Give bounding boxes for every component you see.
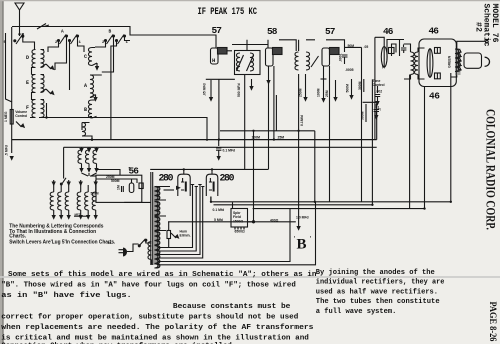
osc switch S3 — [105, 40, 107, 42]
hum eliminator resistor — [167, 231, 171, 239]
wire 46 output drops — [424, 87, 426, 209]
svg-text:25M: 25M — [325, 90, 329, 97]
arrow .05 under 57 — [210, 80, 212, 97]
svg-text:.5 MFd: .5 MFd — [5, 145, 9, 156]
bank B cluster 2 — [81, 180, 96, 192]
svg-text:Charts.: Charts. — [9, 234, 26, 240]
tube 57 first grid cap — [211, 48, 219, 64]
scan streak across page — [0, 276, 500, 278]
wire coil F interconnect — [30, 100, 47, 118]
svg-text:500M: 500M — [91, 192, 99, 196]
wire S1 to coils — [19, 34, 21, 36]
tube 56 box — [96, 175, 142, 202]
wire IF1 top — [232, 40, 268, 51]
wire left frame vertical A — [6, 33, 13, 102]
svg-text:E: E — [26, 80, 29, 86]
tap arrow coil A — [95, 95, 97, 100]
osc padder inductor — [82, 123, 90, 131]
tube 56 plate box — [139, 183, 143, 189]
rectifier tube 1 envelope — [178, 174, 190, 196]
svg-text:individual rectifiers, they ar: individual rectifiers, they are — [316, 279, 445, 287]
wire osc to bus — [39, 116, 92, 118]
power supply box top — [150, 169, 268, 174]
detector coil bank A — [78, 150, 82, 164]
resistor 300M driver — [363, 79, 365, 92]
svg-text:The two tubes then constitute: The two tubes then constitute — [316, 298, 440, 306]
tube 46 output envelope — [419, 39, 456, 87]
IF transformer 2 secondary — [306, 52, 310, 70]
svg-text:C: C — [84, 54, 87, 60]
svg-text:': ' — [293, 236, 296, 242]
right margin vertical MODEL 76 Schematic #2 — [473, 4, 498, 47]
osc coil C — [88, 48, 92, 66]
cap 0.1MFd to bus — [216, 140, 221, 156]
wire under 58 to supply box — [268, 66, 270, 169]
svg-text:46: 46 — [429, 91, 440, 102]
svg-text:400Ω: 400Ω — [270, 219, 279, 223]
svg-text:Some sets of this model are wi: Some sets of this model are wired as in … — [8, 271, 317, 279]
B+ rail 3 — [253, 208, 425, 210]
AC plug — [119, 250, 124, 253]
svg-text:as in "B" have five lugs.: as in "B" have five lugs. — [1, 292, 132, 300]
power transformer windings — [154, 187, 159, 265]
svg-text:100M: 100M — [317, 88, 321, 97]
tone control cap .002 — [375, 86, 380, 101]
svg-text:1M: 1M — [117, 185, 121, 190]
switch S1 — [14, 40, 16, 42]
svg-text:.05 MFd: .05 MFd — [203, 83, 207, 96]
mid bus — [220, 130, 315, 132]
svg-text:57: 57 — [212, 25, 223, 36]
svg-text:"B". Those wired as in "A" ha: "B". Those wired as in "A" have four lug… — [1, 282, 296, 290]
output transformer — [455, 49, 460, 76]
long bus line 2 — [64, 146, 377, 148]
tiny component labels — [4, 44, 452, 245]
svg-text:100M: 100M — [252, 135, 261, 139]
ground arrow left bottom — [10, 156, 14, 161]
wire coil D interconnect — [32, 50, 47, 75]
svg-text:46: 46 — [429, 26, 440, 37]
tube 58 grid cap — [266, 48, 274, 66]
svg-text:correct for proper operation,: correct for proper operation, substitute… — [1, 313, 298, 321]
tube 46 output cathode — [427, 49, 433, 78]
svg-text:58: 58 — [267, 26, 278, 37]
wire verticals midsection — [218, 79, 220, 139]
speaker voice coil box — [464, 53, 482, 68]
speaker terminal dot — [486, 40, 489, 43]
wire left frame vertical B — [11, 27, 13, 153]
tube 46 output grid elements — [435, 48, 441, 54]
heater nest lines — [158, 185, 193, 248]
svg-text:used as half wave rectifiers.: used as half wave rectifiers. — [316, 288, 438, 296]
svg-text:B: B — [297, 237, 307, 253]
svg-text:is critical and must be mainta: is critical and must be maintained as sh… — [1, 334, 309, 342]
cap det ground — [335, 80, 337, 97]
riser top ticks — [191, 185, 205, 187]
svg-text:B: B — [109, 29, 112, 35]
svg-text:when replacements are needed.: when replacements are needed. The polari… — [1, 324, 314, 332]
svg-text:250M: 250M — [299, 88, 303, 97]
AF transformer wiring — [404, 44, 425, 79]
cap .1 — [374, 104, 379, 115]
svg-text:.0001: .0001 — [339, 53, 343, 62]
arrow under IF1 — [251, 79, 253, 86]
switch in antenna bus — [37, 24, 46, 30]
speaker cone — [485, 57, 490, 66]
svg-text:500M: 500M — [346, 84, 350, 93]
svg-text:a full wave system.: a full wave system. — [316, 308, 397, 316]
svg-text:H: H — [212, 57, 215, 64]
tap arrow coil C — [96, 63, 98, 68]
wire 58 to IF2 — [279, 40, 296, 51]
speaker field box — [231, 209, 248, 228]
bank B switch — [60, 183, 62, 185]
svg-text:': ' — [309, 236, 312, 242]
svg-text:Switch Levers Are'Lug 5'In Con: Switch Levers Are'Lug 5'In Connection Ch… — [9, 240, 116, 246]
wire under first 57 — [206, 78, 235, 80]
filament feed arrow — [164, 189, 175, 191]
long bus line 1 — [12, 139, 377, 141]
svg-text:5: 5 — [129, 166, 131, 170]
note text left — [9, 224, 116, 246]
B+ rail 1 — [211, 197, 451, 202]
svg-text:500M: 500M — [360, 111, 364, 120]
capacitor .0001 — [342, 55, 348, 64]
tap arrow coil E — [46, 89, 51, 94]
bottom paragraph 1 — [1, 269, 445, 344]
cap at rails — [210, 197, 212, 202]
svg-text:1500Ω: 1500Ω — [233, 220, 244, 224]
page left edge strip — [0, 0, 2, 344]
svg-text:#2: #2 — [473, 22, 482, 32]
fuse winding — [148, 242, 152, 260]
resistor 500M det — [305, 74, 307, 97]
tube 46 driver cathode — [381, 47, 387, 68]
svg-text:0.1Mfd: 0.1Mfd — [300, 115, 304, 126]
svg-text:By joining the anodes of the: By joining the anodes of the — [316, 269, 435, 277]
IF transformer 2 primary — [295, 52, 299, 70]
tube 46 driver plate bracket — [387, 40, 400, 61]
svg-text:5 Mfd: 5 Mfd — [214, 218, 223, 222]
svg-text:500 MFd: 500 MFd — [237, 83, 241, 97]
svg-text:0.1 MFd: 0.1 MFd — [223, 149, 236, 153]
svg-text:Elimin.: Elimin. — [180, 233, 191, 237]
transformer tap wires — [155, 187, 171, 231]
svg-text:1 MEG: 1 MEG — [4, 111, 8, 122]
antenna — [15, 3, 24, 10]
svg-text:PAGE 8-26: PAGE 8-26 — [488, 302, 498, 342]
svg-text:MFD: MFD — [75, 213, 82, 217]
svg-text:50M: 50M — [348, 44, 355, 48]
B+ rail 2 — [214, 79, 373, 204]
wire top bus left — [12, 27, 216, 48]
svg-text:Control: Control — [15, 114, 27, 118]
svg-text:B: B — [22, 32, 25, 38]
wire 46 driver area verticals — [361, 47, 363, 201]
resistor 500M driver — [351, 79, 353, 95]
switch S2 — [58, 40, 60, 42]
cap .05 interstage — [401, 45, 406, 54]
svg-text:B: B — [84, 107, 87, 113]
IF1 primary coil — [236, 53, 240, 71]
IF2 trimmer arrow — [311, 56, 319, 67]
svg-text:57: 57 — [325, 26, 336, 37]
svg-text:500M: 500M — [111, 179, 120, 183]
svg-text:1.0 MFd: 1.0 MFd — [296, 216, 309, 220]
svg-text:Because constants must be: Because constants must be — [173, 303, 291, 311]
tube 46 driver grid box — [389, 48, 395, 54]
wire 400ohm bias line — [168, 221, 296, 223]
AF transformer secondary — [414, 52, 418, 75]
svg-text:46: 46 — [383, 26, 394, 37]
power switch — [138, 245, 140, 247]
wire IF2 top right — [306, 40, 345, 52]
svg-text:.002: .002 — [376, 90, 383, 94]
IF transformer 1 box — [235, 51, 261, 75]
antenna coil F pair — [32, 100, 36, 118]
IF1 secondary coil — [250, 53, 254, 71]
wire S3 drops — [95, 42, 106, 47]
svg-text:A: A — [61, 29, 64, 35]
tube 56 grid ticks — [121, 186, 123, 192]
rectifier tube 2 envelope — [206, 174, 218, 196]
svg-text:.0005: .0005 — [345, 68, 354, 72]
AF transformer primary — [411, 52, 415, 75]
svg-text:D: D — [26, 55, 29, 61]
bank B cluster 1 — [54, 180, 69, 192]
bank B tie — [74, 215, 87, 217]
svg-text:1: 1 — [79, 41, 82, 45]
svg-text:M: M — [382, 65, 385, 71]
svg-text:280: 280 — [220, 173, 235, 184]
B lead arrowhead — [296, 226, 300, 231]
page top edge line — [0, 0, 500, 2]
wire coil F to bus — [39, 118, 207, 142]
svg-text:GREEN: GREEN — [448, 55, 452, 68]
svg-text:280: 280 — [159, 173, 174, 184]
wire S2 drops — [48, 42, 59, 52]
antenna coil E pair — [32, 75, 36, 93]
svg-text:to.: to. — [108, 241, 112, 245]
svg-text:.05: .05 — [364, 45, 369, 49]
wire coil E interconnect — [32, 75, 47, 100]
field terminals — [235, 227, 244, 230]
wire 46 driver top — [375, 37, 404, 46]
tap arrow coil D — [46, 64, 51, 69]
svg-text:Control: Control — [373, 83, 385, 87]
svg-text:A: A — [84, 83, 87, 89]
antenna coil D pair — [32, 50, 36, 68]
svg-text:COLONIAL RADIO CORP.: COLONIAL RADIO CORP. — [484, 109, 498, 230]
coil bank B vertical feed — [63, 147, 65, 178]
power transformer core — [150, 172, 152, 265]
svg-text:300M: 300M — [358, 81, 362, 90]
svg-text:.1: .1 — [378, 108, 382, 111]
svg-text:IF PEAK 175 KC: IF PEAK 175 KC — [198, 6, 258, 18]
bank A wiring — [82, 147, 97, 150]
svg-text:25M: 25M — [278, 135, 285, 139]
tube 57 second grid cap — [322, 48, 330, 66]
volume control pot — [10, 110, 13, 125]
IF1 trimmer arrows — [237, 55, 244, 71]
svg-text:0.1 Mfd: 0.1 Mfd — [213, 208, 225, 212]
svg-text:6500Ω: 6500Ω — [235, 230, 246, 234]
resistor 100M/25M det — [323, 66, 325, 98]
svg-text:Field: Field — [233, 215, 241, 219]
resistor 500M tone — [365, 104, 367, 122]
tube 56 cathode — [129, 183, 134, 193]
osc coil B2 — [88, 100, 92, 118]
output transformer wiring — [451, 41, 486, 77]
svg-text:1: 1 — [126, 41, 129, 45]
osc coil A — [90, 75, 94, 98]
